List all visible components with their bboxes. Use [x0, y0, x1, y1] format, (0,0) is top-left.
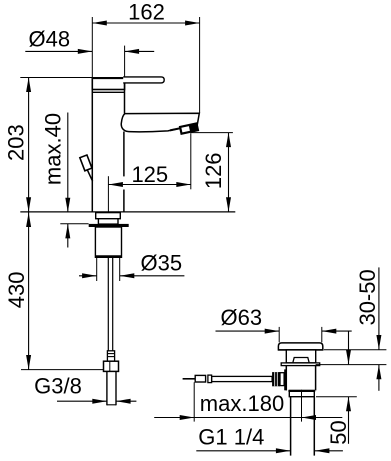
extension line pipe flange: [316, 396, 357, 398]
mounting deck line: [20, 211, 235, 213]
svg-text:max.40: max.40: [40, 113, 65, 185]
extension line right (x=199.6): [199, 17, 201, 113]
waste body right wall: [315, 366, 317, 391]
rod end nut: [195, 375, 205, 382]
dimension line 125: [108, 184, 190, 186]
extension line left (x=92.3): [91, 17, 93, 77]
dimension line G3/8 right part: [116, 400, 136, 402]
svg-text:G3/8: G3/8: [34, 374, 82, 399]
extension line shank right (Ø35): [119, 258, 121, 281]
tail end: [107, 404, 116, 406]
dimension line Ø35 right part: [120, 275, 185, 277]
waste flange: [281, 363, 320, 366]
G3/8 connection nut: [104, 361, 119, 371]
dimension line 50 lower shaft: [348, 397, 350, 444]
faucet body right wall (below spout): [123, 132, 125, 212]
extension line pipe centre: [301, 390, 303, 422]
svg-text:50: 50: [326, 420, 351, 444]
extension line body centre: [107, 176, 109, 212]
extension line cap right: [321, 327, 323, 342]
shank collar second step: [98, 219, 118, 224]
extension line cap left: [278, 327, 280, 342]
extension line aerator: [190, 133, 192, 189]
cap joint line: [92, 91, 124, 93]
extension line cap underside: [324, 349, 387, 351]
dimension line 30-50 upper shaft: [378, 267, 380, 349]
svg-text:Ø35: Ø35: [141, 250, 183, 275]
dimension line Ø63 left part: [216, 330, 280, 332]
svg-text:126: 126: [201, 152, 226, 189]
extension line rod end: [193, 382, 195, 421]
shank collar under deck: [96, 213, 121, 219]
svg-text:162: 162: [128, 0, 165, 25]
dimension line 430: [28, 213, 30, 370]
svg-text:Ø63: Ø63: [221, 305, 263, 330]
horseshoe washer: [89, 224, 129, 227]
dimension line Ø63 right part: [322, 330, 352, 332]
plug cap bottom edge: [278, 349, 323, 351]
dimension line 30-50 lower shaft: [378, 365, 380, 391]
extension line shank left (Ø35): [96, 258, 98, 281]
rod ring: [208, 375, 212, 383]
plug cap: [278, 343, 322, 350]
plug lift detail: [293, 358, 309, 363]
extension line right of body top: [124, 46, 126, 77]
dimension line G1 1/4 left part: [196, 450, 290, 452]
knurled knob of rod joint: [272, 372, 280, 386]
dimension line Ø48 right part: [125, 50, 155, 52]
faucet body right wall (above spout): [124, 77, 126, 114]
dimension line G1 1/4 right part: [315, 450, 343, 452]
extension line hose nut bottom: [21, 369, 103, 371]
ball socket: [280, 373, 284, 386]
supply hose right wall: [112, 258, 114, 351]
cartridge cap on body top: [92, 78, 124, 90]
clearance gap in body wall at 125 arrow: [123, 176, 126, 189]
svg-text:430: 430: [4, 272, 29, 309]
faucet body left wall: [91, 77, 93, 212]
dimension line 126: [228, 133, 230, 212]
dimension line Ø48 left part: [25, 50, 92, 52]
dimension line 203: [28, 78, 30, 212]
dimension line 50 upper shaft: [348, 331, 350, 364]
svg-text:G1 1/4: G1 1/4: [198, 424, 264, 449]
dimension line G3/8 left part: [57, 400, 107, 402]
svg-text:203: 203: [3, 124, 28, 161]
mounting nut: [95, 227, 121, 257]
svg-text:Ø48: Ø48: [29, 26, 71, 51]
pop-up rod wire: [87, 170, 92, 182]
extension line flange bottom: [316, 364, 387, 366]
rod threaded tip: [183, 378, 196, 380]
G3/8 threaded tail right wall: [115, 371, 117, 405]
extension line faucet top: [20, 77, 91, 79]
extension line washer top: [60, 223, 88, 225]
spout underside edge near tip: [170, 125, 197, 131]
lever handle: [123, 77, 164, 83]
horizontal pop-up lever rod: [212, 376, 273, 381]
waste pipe left wall: [290, 397, 292, 456]
supply hose left wall: [107, 258, 109, 351]
aerator at spout tip: [180, 123, 198, 134]
waste body left wall: [285, 366, 287, 391]
extension line spout outlet: [191, 132, 233, 134]
svg-text:max.180: max.180: [200, 391, 284, 416]
pop-up rod knob on left of body: [80, 155, 92, 171]
plug neck: [286, 350, 315, 363]
dimension line max.180: [154, 417, 342, 419]
G3/8 threaded tail left wall: [106, 371, 108, 405]
clamp bracket: [284, 369, 286, 390]
svg-text:30-50: 30-50: [355, 269, 380, 325]
hose coupling: [107, 351, 114, 361]
pipe flange: [289, 390, 314, 396]
svg-text:125: 125: [131, 162, 168, 187]
dimension line max.40 upper shaft: [67, 113, 69, 213]
spout outline: [121, 113, 199, 132]
dimension line max.40 lower shaft: [67, 224, 69, 248]
waste pipe right wall: [313, 397, 315, 456]
dimension line Ø35 left part: [79, 275, 97, 277]
dimension line 162: [92, 22, 199, 24]
